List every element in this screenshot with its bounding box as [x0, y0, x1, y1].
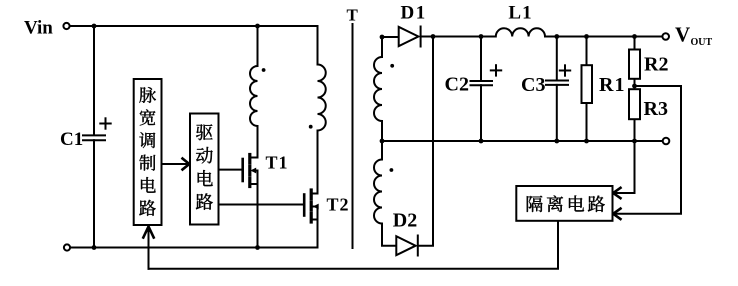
- svg-text:Vin: Vin: [24, 18, 53, 39]
- svg-text:D2: D2: [393, 210, 417, 232]
- svg-text:V: V: [675, 23, 690, 47]
- svg-text:D1: D1: [401, 3, 427, 24]
- svg-text:T2: T2: [327, 195, 350, 215]
- svg-text:R3: R3: [644, 98, 668, 120]
- svg-text:R1: R1: [599, 74, 625, 96]
- svg-text:T: T: [347, 6, 359, 25]
- svg-text:C1: C1: [60, 129, 83, 150]
- svg-text:C3: C3: [521, 74, 545, 96]
- svg-text:L1: L1: [508, 3, 532, 24]
- svg-text:OUT: OUT: [691, 37, 713, 48]
- svg-text:R2: R2: [644, 53, 668, 75]
- svg-text:C2: C2: [445, 74, 469, 96]
- svg-text:T1: T1: [266, 153, 289, 173]
